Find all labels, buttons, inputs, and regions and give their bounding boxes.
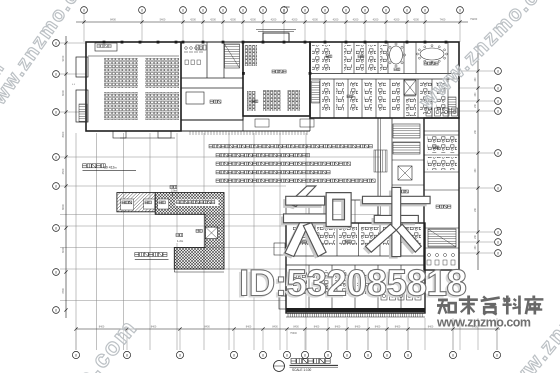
svg-text:8: 8 [407,353,409,357]
svg-text:8400: 8400 [395,326,401,329]
svg-text:75600: 75600 [290,332,298,335]
svg-text:4200: 4200 [413,18,419,22]
svg-text:2.0m: 2.0m [171,189,177,193]
svg-text:9150: 9150 [61,55,65,61]
svg-text:8: 8 [346,353,348,357]
svg-text:8: 8 [497,99,499,103]
svg-text:8400: 8400 [61,131,65,137]
svg-text:8: 8 [262,353,264,357]
svg-text:+4.50: +4.50 [282,5,290,9]
svg-text:www.znzmo.com: www.znzmo.com [436,316,531,330]
svg-text:8: 8 [497,69,499,73]
svg-text:8: 8 [55,226,57,230]
svg-text:4200: 4200 [230,18,236,22]
svg-text:6600: 6600 [61,204,65,210]
svg-text:8400: 8400 [293,326,299,329]
svg-text:8400: 8400 [110,18,116,22]
svg-text:19 412: 19 412 [104,166,114,170]
svg-text:8400: 8400 [428,326,434,329]
svg-text:8400: 8400 [335,326,341,329]
svg-text:8400: 8400 [272,326,278,329]
svg-text:8: 8 [452,353,454,357]
svg-text:8: 8 [345,8,347,12]
svg-text:8: 8 [55,72,57,76]
svg-text:8: 8 [406,8,408,12]
svg-text:4200: 4200 [394,18,400,22]
svg-text:5400: 5400 [160,18,166,22]
svg-text:8: 8 [262,8,264,12]
svg-text:8: 8 [497,86,499,90]
svg-text:8400: 8400 [99,326,105,329]
svg-text:4200: 4200 [292,18,298,22]
svg-text:8400: 8400 [375,326,381,329]
svg-text:8: 8 [386,353,388,357]
svg-text:8400: 8400 [355,326,361,329]
svg-text:4200: 4200 [333,18,339,22]
svg-text:8: 8 [126,353,128,357]
svg-text:8: 8 [385,8,387,12]
svg-text:8: 8 [179,353,181,357]
svg-text:8: 8 [497,251,499,255]
svg-text:4200: 4200 [353,18,359,22]
svg-text:8: 8 [202,8,204,12]
svg-text:4200: 4200 [250,18,256,22]
svg-text:8: 8 [222,8,224,12]
svg-text:1.2m: 1.2m [177,239,184,243]
svg-text:8: 8 [304,353,306,357]
svg-text:8: 8 [55,41,57,45]
svg-text:4200: 4200 [190,18,196,22]
svg-text:8: 8 [75,353,77,357]
svg-text:8: 8 [497,186,499,190]
svg-text:8: 8 [55,110,57,114]
svg-text:8: 8 [497,240,499,244]
svg-text:8: 8 [324,8,326,12]
svg-text:8: 8 [497,151,499,155]
svg-text:8: 8 [424,8,426,12]
svg-text:79200: 79200 [470,17,478,21]
svg-text:8: 8 [182,8,184,12]
svg-text:4200: 4200 [271,18,277,22]
svg-text:8: 8 [327,353,329,357]
svg-text:8: 8 [242,8,244,12]
svg-text:8: 8 [364,8,366,12]
svg-text:8400: 8400 [246,326,252,329]
svg-text:SCALE 1:100: SCALE 1:100 [292,368,312,372]
svg-text:6000: 6000 [61,247,65,253]
svg-text:8400: 8400 [314,326,320,329]
svg-text:8: 8 [55,184,57,188]
svg-text:8: 8 [497,109,499,113]
svg-text:4200: 4200 [312,18,318,22]
svg-text:8: 8 [496,353,498,357]
svg-text:8400: 8400 [204,326,210,329]
svg-text:8: 8 [497,230,499,234]
svg-text:8: 8 [83,8,85,12]
svg-text:4500: 4500 [61,168,65,174]
svg-text:ID:532085818: ID:532085818 [239,263,467,304]
svg-text:8: 8 [55,155,57,159]
svg-text:4200: 4200 [210,18,216,22]
svg-text:8: 8 [141,8,143,12]
svg-text:8: 8 [233,353,235,357]
svg-text:8400: 8400 [151,326,157,329]
svg-text:8: 8 [55,308,57,312]
svg-text:8: 8 [304,8,306,12]
svg-text:8: 8 [459,8,461,12]
svg-text:7800: 7800 [61,288,65,294]
svg-text:8: 8 [286,353,288,357]
svg-text:7400: 7400 [440,18,446,22]
svg-text:6000: 6000 [61,90,65,96]
svg-text:8: 8 [367,353,369,357]
svg-text:8: 8 [55,270,57,274]
svg-text:4200: 4200 [373,18,379,22]
